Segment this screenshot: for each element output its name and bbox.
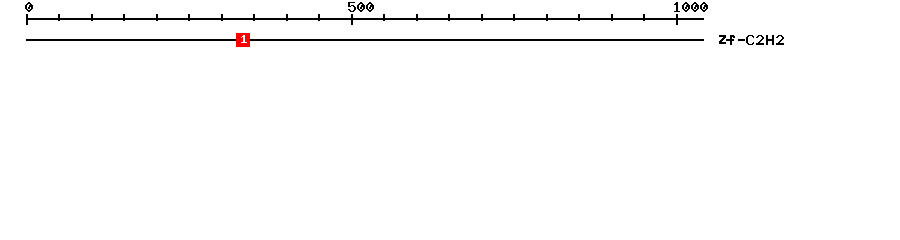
ruler label 500 xyxy=(348,2,374,12)
domain name zf-C2H2 xyxy=(719,35,784,45)
minor tick 850 xyxy=(578,14,580,21)
minor tick 350 xyxy=(253,14,255,21)
major tick 500 xyxy=(351,14,353,25)
minor tick 800 xyxy=(546,14,548,21)
minor tick 50 xyxy=(58,14,60,21)
major tick 1000 xyxy=(676,14,678,25)
minor tick 150 xyxy=(123,14,125,21)
ruler label 1000 xyxy=(674,2,708,12)
minor tick 250 xyxy=(188,14,190,21)
minor tick 650 xyxy=(448,14,450,21)
ruler axis line xyxy=(27,18,704,20)
minor tick 400 xyxy=(286,14,288,21)
minor tick 900 xyxy=(611,14,613,21)
sequence line xyxy=(26,39,704,41)
minor tick 950 xyxy=(643,14,645,21)
domain box 1 (red) xyxy=(236,33,250,47)
domain number 1 (white) xyxy=(241,35,247,43)
minor tick 450 xyxy=(318,14,320,21)
minor tick 100 xyxy=(91,14,93,21)
minor tick 200 xyxy=(156,14,158,21)
minor tick 550 xyxy=(383,14,385,21)
ruler label 0 xyxy=(25,2,33,12)
minor tick 600 xyxy=(416,14,418,21)
minor tick 300 xyxy=(221,14,223,21)
minor tick 700 xyxy=(481,14,483,21)
major tick 0 xyxy=(26,14,28,25)
minor tick 750 xyxy=(513,14,515,21)
